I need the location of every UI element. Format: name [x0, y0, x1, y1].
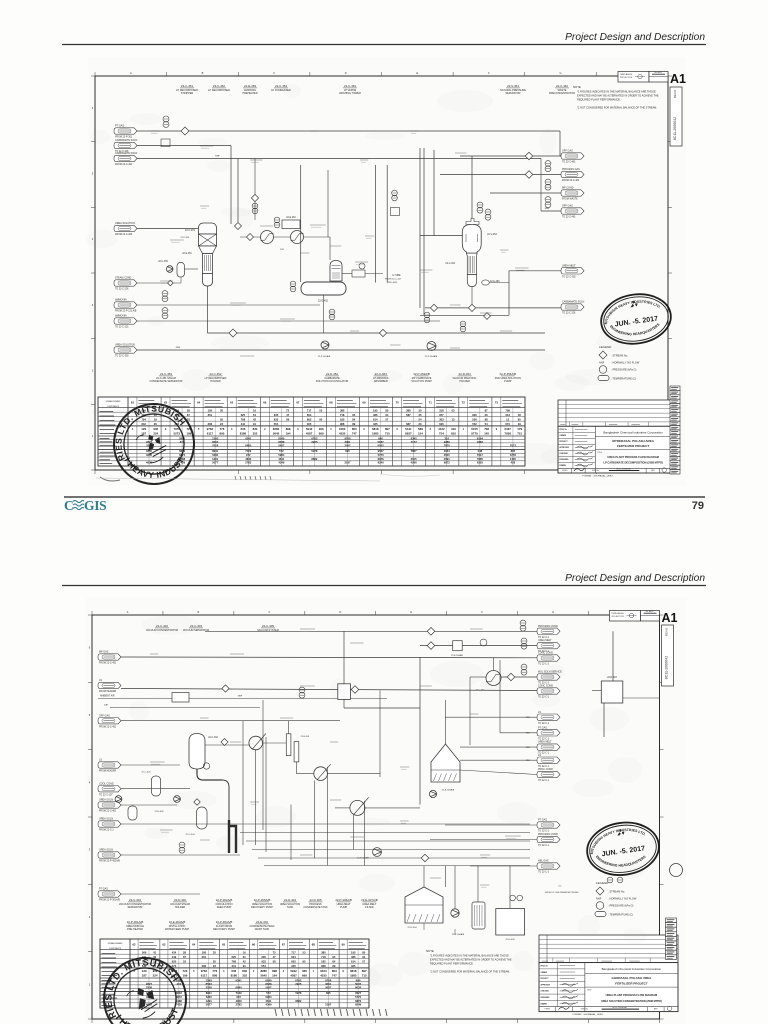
- svg-text:95: 95: [319, 417, 322, 421]
- svg-text:4535: 4535: [339, 432, 346, 436]
- svg-text:*2 NOT CONSIDERED FOR MATERIA: *2 NOT CONSIDERED FOR MATERIAL BALANCE O…: [577, 106, 657, 110]
- svg-text:72: 72: [273, 950, 276, 954]
- svg-text:: PRESSURE (kPa G): : PRESSURE (kPa G): [611, 368, 637, 372]
- svg-text:68: 68: [329, 401, 333, 405]
- svg-text:UREA SOLUTION: UREA SOLUTION: [115, 344, 135, 347]
- svg-text:U-TUBE: U-TUBE: [392, 275, 401, 277]
- svg-text:3061: 3061: [325, 982, 332, 986]
- svg-text:42: 42: [253, 417, 256, 421]
- svg-text:22-D-452: 22-D-452: [326, 372, 338, 376]
- svg-text:5942: 5942: [306, 427, 313, 431]
- svg-text:NNF: NNF: [596, 897, 602, 901]
- svg-text:EXPECTED AND MAY BE ALTERNATED: EXPECTED AND MAY BE ALTERNATED IN ORDER …: [430, 958, 512, 962]
- svg-text:335: 335: [274, 413, 279, 417]
- svg-text:P.ENG: P.ENG: [545, 1009, 551, 1011]
- svg-text:57: 57: [362, 959, 365, 963]
- svg-text:9163: 9163: [339, 427, 346, 431]
- svg-text:STRIPPER: STRIPPER: [181, 92, 194, 95]
- svg-text:636: 636: [241, 427, 246, 431]
- svg-text:REV.0: REV.0: [673, 89, 677, 98]
- svg-text:TO 22-C-1: TO 22-C-1: [538, 723, 550, 725]
- svg-text:556: 556: [472, 417, 477, 421]
- svg-text:MP COND: MP COND: [562, 187, 574, 190]
- svg-text:4587: 4587: [306, 432, 313, 436]
- svg-text:MP GAS: MP GAS: [99, 651, 109, 654]
- svg-text:WATER FEED PUMP: WATER FEED PUMP: [165, 928, 189, 931]
- svg-text:4266: 4266: [411, 461, 417, 465]
- svg-text:8503: 8503: [212, 440, 219, 444]
- svg-text:FEED PUMP: FEED PUMP: [217, 906, 232, 909]
- svg-text:195: 195: [373, 408, 378, 412]
- svg-text:587: 587: [406, 413, 411, 417]
- svg-text:669: 669: [302, 974, 307, 978]
- svg-text:6633: 6633: [176, 991, 182, 995]
- svg-text:313: 313: [505, 413, 510, 417]
- svg-text:9708: 9708: [344, 436, 351, 440]
- svg-text:22-E-451: 22-E-451: [182, 253, 192, 255]
- svg-text:8280: 8280: [273, 427, 280, 431]
- svg-text:EXPECTED AND MAY BE ALTERNATED: EXPECTED AND MAY BE ALTERNATED IN ORDER …: [577, 94, 659, 98]
- svg-text:CONC COND: CONC COND: [538, 652, 553, 655]
- svg-text:5927: 5927: [265, 985, 272, 989]
- svg-text:9779: 9779: [471, 432, 478, 436]
- svg-text:PROCESS GAS: PROCESS GAS: [562, 168, 580, 171]
- svg-text:22-C-451: 22-C-451: [181, 84, 193, 88]
- svg-text:3061: 3061: [344, 440, 351, 444]
- svg-text:8682: 8682: [311, 457, 317, 461]
- svg-text:HEL GAS: HEL GAS: [538, 860, 549, 863]
- svg-text:4349: 4349: [278, 461, 284, 465]
- svg-text:FROM 22-C-401: FROM 22-C-401: [115, 164, 133, 166]
- svg-text:67: 67: [296, 401, 300, 405]
- svg-text:FROM 22-C-451: FROM 22-C-451: [99, 726, 117, 728]
- svg-text:CARBAMATE SOLN: CARBAMATE SOLN: [115, 139, 138, 142]
- svg-text:61: 61: [253, 413, 256, 417]
- svg-text:22-P-452A/B: 22-P-452A/B: [413, 372, 430, 376]
- svg-text:7429: 7429: [176, 1003, 182, 1007]
- svg-text:13: 13: [506, 417, 509, 421]
- svg-text:428: 428: [511, 461, 516, 465]
- svg-text:22-P-454A/B: 22-P-454A/B: [500, 372, 517, 376]
- svg-text:PUMP: PUMP: [504, 380, 512, 383]
- svg-text:690: 690: [378, 436, 383, 440]
- svg-text:5942: 5942: [290, 969, 297, 973]
- svg-text:22-C-304: 22-C-304: [185, 834, 195, 836]
- svg-text:1291: 1291: [212, 457, 218, 461]
- svg-text:P.ENG: P.ENG: [562, 470, 568, 472]
- svg-text:: NORMALLY NO FLOW: : NORMALLY NO FLOW: [611, 361, 640, 365]
- svg-text:COOL COND: COOL COND: [99, 782, 114, 785]
- svg-text:22-P-452A/B: 22-P-452A/B: [318, 355, 331, 358]
- svg-text:625: 625: [232, 955, 237, 959]
- svg-text:DESIGNED: DESIGNED: [541, 997, 551, 999]
- svg-text:FROM WASTE: FROM WASTE: [562, 198, 578, 201]
- svg-text:7017: 7017: [477, 453, 483, 457]
- svg-text:5645: 5645: [260, 974, 267, 978]
- svg-text:No. A620: No. A620: [654, 71, 661, 74]
- svg-text:22-D-302: 22-D-302: [174, 898, 186, 902]
- svg-text:22-D-454: 22-D-454: [459, 372, 471, 376]
- svg-text:Project Design and Description: Project Design and Description: [565, 573, 705, 584]
- svg-text:PROCESS COND: PROCESS COND: [538, 625, 558, 628]
- svg-text:OWNER: OWNER: [541, 972, 548, 974]
- svg-text:FROM 22-C-451: FROM 22-C-451: [99, 663, 117, 665]
- svg-text:154: 154: [418, 432, 423, 436]
- svg-text:6015: 6015: [471, 427, 478, 431]
- svg-text:972: 972: [246, 453, 251, 457]
- svg-text:5441: 5441: [405, 427, 412, 431]
- svg-text:22-E-459: 22-E-459: [244, 84, 256, 88]
- svg-text:22-C-453: 22-C-453: [160, 372, 172, 376]
- svg-text:4611: 4611: [266, 999, 272, 1003]
- svg-text:UREA MELT: UREA MELT: [538, 639, 552, 642]
- svg-text:LP DECOMPOSER: LP DECOMPOSER: [208, 89, 230, 92]
- svg-text:8941: 8941: [212, 449, 218, 453]
- svg-text:4611: 4611: [278, 457, 284, 461]
- svg-text:22-E-302: 22-E-302: [256, 920, 268, 924]
- svg-text:380: 380: [321, 950, 326, 954]
- svg-text:6876: 6876: [355, 999, 361, 1003]
- svg-text:5200: 5200: [206, 995, 212, 999]
- svg-text:22-E-302: 22-E-302: [155, 811, 165, 813]
- svg-text:5273: 5273: [174, 432, 181, 436]
- svg-text:94: 94: [385, 413, 388, 417]
- svg-text:22-C-462: 22-C-462: [445, 263, 455, 265]
- svg-text:669: 669: [319, 432, 324, 436]
- svg-text:72: 72: [286, 408, 289, 412]
- svg-text:708: 708: [505, 408, 510, 412]
- svg-text:89: 89: [332, 964, 335, 968]
- svg-text:FERTILIZER PROJECT: FERTILIZER PROJECT: [615, 981, 648, 985]
- svg-text:Bangladesh Chemical Industries: Bangladesh Chemical Industries Corporati…: [603, 430, 663, 434]
- svg-text:66: 66: [263, 401, 267, 405]
- svg-text:HOLDER: HOLDER: [210, 380, 221, 383]
- svg-text:8280: 8280: [260, 969, 267, 973]
- svg-text:3057: 3057: [325, 985, 332, 989]
- svg-text:55: 55: [220, 417, 223, 421]
- svg-text:: NORMALLY NO FLOW: : NORMALLY NO FLOW: [608, 897, 637, 901]
- svg-text:84: 84: [332, 959, 335, 963]
- svg-text:195: 195: [202, 950, 207, 954]
- svg-text:972: 972: [236, 995, 241, 999]
- svg-text:8186: 8186: [240, 432, 247, 436]
- svg-text:721: 721: [517, 432, 522, 436]
- svg-text:87: 87: [485, 408, 488, 412]
- svg-text:380: 380: [340, 408, 345, 412]
- svg-text:NNF: NNF: [176, 347, 181, 349]
- svg-text:CONC COND: CONC COND: [538, 685, 553, 688]
- svg-text:PRECONCENTRATOR: PRECONCENTRATOR: [549, 92, 575, 95]
- svg-text:4349: 4349: [265, 1003, 271, 1007]
- svg-text:810: 810: [451, 432, 456, 436]
- svg-text:REQUIRED PLANT PERFORMANCE.: REQUIRED PLANT PERFORMANCE.: [577, 98, 621, 102]
- svg-text:614: 614: [373, 417, 378, 421]
- svg-text:FROM 22-C-204: FROM 22-C-204: [115, 234, 133, 236]
- svg-text:6880: 6880: [245, 443, 252, 447]
- svg-text:22-C-452: 22-C-452: [213, 84, 225, 88]
- svg-text:2925: 2925: [295, 982, 302, 986]
- svg-text:554: 554: [261, 964, 266, 968]
- svg-text:968: 968: [340, 422, 345, 426]
- svg-text:366: 366: [302, 969, 307, 973]
- svg-text:PRE-HEATER: PRE-HEATER: [127, 928, 143, 931]
- svg-text:5200: 5200: [212, 453, 218, 457]
- svg-text:8540: 8540: [278, 436, 285, 440]
- svg-text:E: E: [416, 71, 418, 75]
- svg-text:C: C: [64, 498, 74, 513]
- svg-text:5077: 5077: [212, 461, 218, 465]
- svg-text:2827: 2827: [146, 982, 153, 986]
- svg-text:TO 22-C-1: TO 22-C-1: [538, 664, 550, 666]
- svg-text:35: 35: [213, 950, 216, 954]
- svg-text:LS: LS: [538, 754, 541, 757]
- svg-text:22-D-305: 22-D-305: [309, 898, 321, 902]
- svg-text:3057: 3057: [344, 443, 351, 447]
- svg-text:(PFD-002): (PFD-002): [387, 282, 397, 284]
- svg-text:179: 179: [517, 427, 522, 431]
- svg-text:572: 572: [266, 991, 271, 995]
- svg-text:G: G: [552, 610, 554, 614]
- svg-text:4840: 4840: [236, 999, 242, 1003]
- svg-text:26: 26: [154, 422, 157, 426]
- svg-text:802: 802: [291, 959, 296, 963]
- svg-text:63: 63: [162, 943, 166, 947]
- svg-text:CONDENSATE TANK: CONDENSATE TANK: [303, 906, 328, 909]
- svg-text:22-C-302: 22-C-302: [208, 737, 218, 739]
- svg-text:9762: 9762: [201, 969, 208, 973]
- svg-text:TO 22-C-201: TO 22-C-201: [115, 289, 129, 291]
- svg-text:366: 366: [319, 427, 324, 431]
- svg-text:GHORASAL POLASH UREA: GHORASAL POLASH UREA: [612, 976, 653, 980]
- svg-text:902: 902: [153, 427, 158, 431]
- svg-text:STEAM COND: STEAM COND: [115, 277, 131, 280]
- svg-text:*1 FIGURES INDICATED IN THE M: *1 FIGURES INDICATED IN THE MATERIAL BAL…: [577, 90, 656, 94]
- svg-text:22-P-451: 22-P-451: [181, 237, 191, 239]
- svg-text:18: 18: [518, 413, 521, 417]
- svg-text:22-C-305: 22-C-305: [262, 624, 274, 628]
- svg-text:*2 NOT CONSIDERED FOR MATERIA: *2 NOT CONSIDERED FOR MATERIAL BALANCE O…: [430, 970, 510, 974]
- svg-text:87: 87: [187, 413, 190, 417]
- svg-text:7870: 7870: [444, 443, 451, 447]
- svg-text:26: 26: [485, 413, 488, 417]
- svg-text:80: 80: [362, 950, 365, 954]
- svg-text:73: 73: [495, 401, 499, 405]
- svg-text:22-P-304A/B: 22-P-304A/B: [452, 933, 465, 936]
- svg-text:DAT: DAT: [104, 704, 109, 707]
- svg-text:673: 673: [505, 422, 510, 426]
- svg-text:FORMAT : GHORASAL_UER4: FORMAT : GHORASAL_UER4: [583, 475, 614, 478]
- svg-text:776: 776: [220, 427, 225, 431]
- svg-text:718: 718: [340, 413, 345, 417]
- svg-text:6325: 6325: [477, 461, 483, 465]
- svg-text:REV.0: REV.0: [665, 627, 669, 636]
- svg-text:2197: 2197: [325, 1003, 331, 1007]
- svg-text:SEPARATOR: SEPARATOR: [127, 906, 142, 909]
- svg-text:B: B: [198, 610, 200, 614]
- svg-text:PROJ No: PROJ No: [541, 965, 548, 967]
- svg-text:: STREAM No.: : STREAM No.: [608, 890, 625, 894]
- svg-text:UREA SOLN: UREA SOLN: [99, 799, 113, 802]
- svg-text:425: 425: [373, 422, 378, 426]
- svg-text:47: 47: [273, 955, 276, 959]
- svg-text:625: 625: [241, 413, 246, 417]
- svg-text:THIRD ANGLE: THIRD ANGLE: [620, 73, 633, 76]
- svg-text:695: 695: [345, 449, 350, 453]
- svg-text:NNF: NNF: [545, 208, 550, 210]
- svg-text:FROM CLOSE DRAIN NETWORK: FROM CLOSE DRAIN NETWORK: [545, 891, 579, 894]
- svg-text:65: 65: [230, 401, 234, 405]
- svg-text:G: G: [560, 71, 562, 75]
- svg-text:890: 890: [220, 432, 225, 436]
- svg-text:768: 768: [241, 417, 246, 421]
- svg-text:22-P-303A/B: 22-P-303A/B: [216, 920, 233, 924]
- svg-text:SOLUTION PUMP: SOLUTION PUMP: [411, 380, 432, 383]
- svg-text:63: 63: [452, 408, 455, 412]
- svg-text:GIS: GIS: [84, 498, 106, 513]
- svg-text:: PRESSURE (kPa G): : PRESSURE (kPa G): [608, 904, 634, 908]
- svg-text:2437: 2437: [504, 427, 511, 431]
- svg-text:UREA PLANT PROCESS FLOW DIAGRA: UREA PLANT PROCESS FLOW DIAGRAM: [606, 993, 658, 997]
- svg-text:94: 94: [362, 955, 365, 959]
- svg-text:695: 695: [326, 991, 331, 995]
- svg-text:9249: 9249: [355, 1003, 361, 1007]
- svg-text:95: 95: [303, 959, 306, 963]
- svg-text:49: 49: [518, 422, 521, 426]
- svg-text:2925: 2925: [311, 440, 318, 444]
- svg-text:22-V-454: 22-V-454: [487, 233, 497, 236]
- svg-text:TO 22-C-1: TO 22-C-1: [538, 872, 550, 874]
- svg-text:9341: 9341: [236, 978, 243, 982]
- svg-text:305: 305: [291, 964, 296, 968]
- svg-text:4691: 4691: [444, 457, 450, 461]
- svg-text:2197: 2197: [345, 461, 351, 465]
- svg-text:23: 23: [220, 422, 223, 426]
- svg-text:Bangladesh Chemical Industries: Bangladesh Chemical Industries Corporati…: [602, 967, 662, 971]
- svg-text:PROJECT: PROJECT: [541, 978, 550, 980]
- svg-text:830: 830: [253, 427, 258, 431]
- svg-text:8540: 8540: [265, 978, 272, 982]
- svg-text:5978: 5978: [311, 449, 317, 453]
- svg-text:22-D-304: 22-D-304: [407, 927, 417, 929]
- svg-text:22-P-301A/B: 22-P-301A/B: [127, 920, 144, 924]
- svg-text:803: 803: [352, 427, 357, 431]
- svg-text:5927: 5927: [278, 443, 285, 447]
- svg-text:62: 62: [132, 943, 136, 947]
- svg-text:614: 614: [351, 959, 356, 963]
- svg-text:LEGEND: LEGEND: [596, 881, 609, 885]
- svg-text:22-D-304: 22-D-304: [284, 898, 296, 902]
- svg-text:552: 552: [472, 422, 477, 426]
- svg-text:53: 53: [319, 408, 322, 412]
- svg-text:69: 69: [362, 401, 366, 405]
- svg-text:TO 22-C-201: TO 22-C-201: [562, 313, 576, 315]
- svg-text:TANK: TANK: [287, 906, 294, 909]
- svg-text:22-E-307A/B: 22-E-307A/B: [361, 898, 378, 902]
- svg-text:572: 572: [279, 449, 284, 453]
- svg-text:316: 316: [444, 436, 449, 440]
- svg-text:PROJECTION: PROJECTION: [620, 77, 633, 79]
- svg-text:747: 747: [352, 432, 357, 436]
- svg-text:95: 95: [332, 955, 335, 959]
- svg-text:754: 754: [439, 432, 444, 436]
- svg-text:6792: 6792: [295, 978, 302, 982]
- svg-text:19: 19: [154, 417, 157, 421]
- svg-text:DWG No: DWG No: [581, 1009, 588, 1011]
- svg-text:RECOVERY PUMP: RECOVERY PUMP: [213, 928, 235, 931]
- svg-text:717: 717: [291, 950, 296, 954]
- svg-text:5645: 5645: [273, 432, 280, 436]
- svg-text:FROM 22-C-451: FROM 22-C-451: [99, 811, 117, 813]
- svg-text:474: 474: [177, 982, 182, 986]
- svg-text:687: 687: [406, 422, 411, 426]
- svg-text:CONDENSATE SEPARATOR: CONDENSATE SEPARATOR: [150, 380, 183, 383]
- svg-text:CHECKED: CHECKED: [541, 991, 550, 993]
- svg-text:30: 30: [418, 408, 421, 412]
- svg-text:305: 305: [307, 422, 312, 426]
- svg-text:No. A620: No. A620: [646, 610, 653, 613]
- svg-text:22-C-451: 22-C-451: [185, 229, 196, 232]
- svg-text:TO 22-C-302: TO 22-C-302: [115, 356, 129, 358]
- svg-text:318: 318: [439, 408, 444, 412]
- svg-text:35: 35: [220, 408, 223, 412]
- svg-text:28: 28: [183, 950, 186, 954]
- svg-text:FROM 22-C-2: FROM 22-C-2: [99, 830, 114, 832]
- svg-text:PROC COND: PROC COND: [538, 768, 553, 771]
- svg-text:8C11-2000042: 8C11-2000042: [673, 117, 677, 141]
- svg-text:AMMONIA: AMMONIA: [115, 299, 127, 302]
- svg-text:95: 95: [352, 413, 355, 417]
- svg-text:FROM 22-P-301A/B: FROM 22-P-301A/B: [99, 899, 120, 902]
- svg-text:STREAM NUMBER: STREAM NUMBER: [108, 942, 124, 945]
- svg-text:22-E-301: 22-E-301: [301, 736, 311, 738]
- svg-text:266: 266: [202, 964, 207, 968]
- svg-text:8937: 8937: [405, 432, 412, 436]
- svg-text:22-P-454A/B: 22-P-454A/B: [425, 355, 438, 358]
- svg-text:352: 352: [253, 432, 258, 436]
- svg-text:80: 80: [385, 408, 388, 412]
- svg-text:224: 224: [153, 974, 158, 978]
- svg-text:199: 199: [183, 974, 188, 978]
- svg-text:2985: 2985: [179, 436, 186, 440]
- svg-text:FORMAT : GHORASAL_UER4: FORMAT : GHORASAL_UER4: [573, 1013, 604, 1016]
- svg-text:9762: 9762: [207, 427, 214, 431]
- svg-text:DWG No: DWG No: [592, 470, 599, 472]
- svg-text:PT GAS: PT GAS: [115, 125, 124, 128]
- svg-text:66: 66: [252, 943, 256, 947]
- svg-text:C: C: [268, 610, 270, 614]
- svg-text:22-V-454: 22-V-454: [507, 84, 519, 88]
- svg-text:FILTER: FILTER: [365, 906, 374, 909]
- svg-text:195: 195: [351, 950, 356, 954]
- svg-text:486: 486: [351, 955, 356, 959]
- svg-text:968: 968: [321, 964, 326, 968]
- svg-text:STREAM NUMBER: STREAM NUMBER: [106, 400, 122, 403]
- svg-text:6117: 6117: [207, 432, 214, 436]
- svg-text:195: 195: [208, 408, 213, 412]
- svg-text:9488: 9488: [176, 999, 182, 1003]
- svg-text:DRAWN: DRAWN: [541, 1002, 548, 1005]
- svg-text:434: 434: [172, 950, 177, 954]
- svg-text:22-C-463: 22-C-463: [344, 84, 356, 88]
- svg-text:NOTE: NOTE: [573, 85, 581, 89]
- svg-text:7938: 7938: [504, 432, 511, 436]
- svg-text:7905: 7905: [477, 457, 483, 461]
- svg-text:261: 261: [208, 413, 213, 417]
- svg-text:58: 58: [273, 959, 276, 963]
- svg-text:898: 898: [286, 427, 291, 431]
- svg-text:64: 64: [197, 401, 201, 405]
- svg-text:A1: A1: [670, 72, 686, 86]
